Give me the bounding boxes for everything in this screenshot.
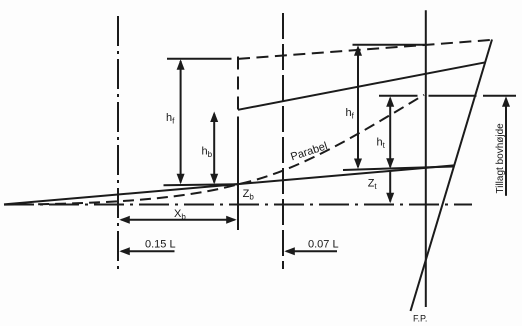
svg-text:0.07 L: 0.07 L bbox=[308, 239, 339, 251]
svg-text:Zb: Zb bbox=[243, 188, 255, 202]
svg-text:Xb: Xb bbox=[174, 208, 186, 222]
svg-text:hf: hf bbox=[346, 107, 355, 121]
svg-text:hb: hb bbox=[202, 146, 213, 160]
svg-text:ht: ht bbox=[377, 137, 386, 151]
svg-text:F.P.: F.P. bbox=[413, 314, 427, 324]
svg-text:Tillagt bovhøjde: Tillagt bovhøjde bbox=[495, 123, 506, 194]
svg-text:0.15 L: 0.15 L bbox=[145, 239, 176, 251]
svg-text:hf: hf bbox=[166, 112, 175, 126]
svg-text:Zt: Zt bbox=[368, 177, 378, 191]
